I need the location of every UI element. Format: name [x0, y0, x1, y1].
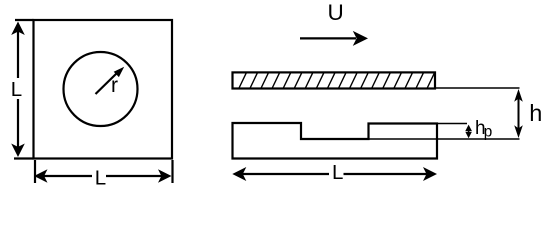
- svg-text:p: p: [484, 124, 493, 141]
- thin surface line continuing right: [369, 138, 520, 140]
- bottom dimension line L (right diagram): [232, 167, 437, 181]
- svg-text:h: h: [529, 100, 542, 126]
- vertical dimension line L (left): [11, 22, 25, 158]
- svg-text:L: L: [11, 78, 22, 101]
- h dimension double arrow: [514, 89, 523, 138]
- radius arrow: [96, 67, 125, 94]
- circle (pore radius r): [64, 52, 138, 126]
- square plate outline: [34, 20, 173, 159]
- h_p small double arrow: [465, 125, 472, 139]
- horizontal dimension line L (bottom left): [34, 169, 172, 183]
- velocity arrow U: [300, 31, 368, 46]
- hatched top plate: [233, 72, 436, 88]
- bottom edge extension: [14, 157, 34, 159]
- svg-text:L: L: [95, 167, 106, 190]
- stepped bottom block: [233, 123, 438, 159]
- svg-text:L: L: [332, 161, 343, 184]
- thin extension of raised surface: [437, 123, 467, 125]
- bottom extension lines: [34, 160, 36, 183]
- top edge extension: [15, 19, 34, 21]
- top channel line extending right: [435, 87, 520, 89]
- svg-text:r: r: [111, 74, 118, 97]
- svg-text:U: U: [328, 0, 344, 25]
